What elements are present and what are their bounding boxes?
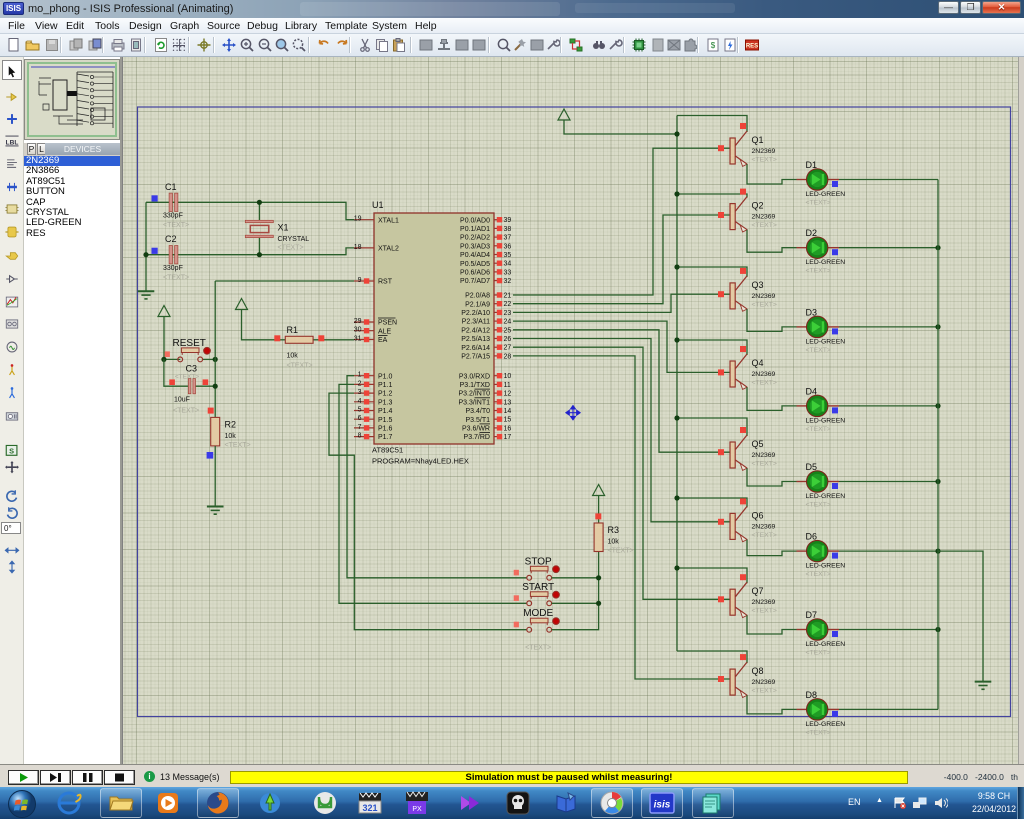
svg-text:LBL: LBL bbox=[6, 139, 19, 146]
wire power arrow to RESET row bbox=[163, 319, 165, 359]
svg-text:P2.3/A11: P2.3/A11 bbox=[462, 319, 490, 326]
svg-text:MODE: MODE bbox=[523, 608, 553, 619]
svg-text:2N2369: 2N2369 bbox=[752, 371, 776, 378]
origin marker bbox=[566, 406, 580, 420]
pin 8 P1.7 bbox=[354, 436, 374, 438]
pin 2 P1.1 bbox=[354, 383, 374, 385]
pin 9 RST bbox=[354, 280, 374, 282]
svg-text:<TEXT>: <TEXT> bbox=[806, 502, 831, 509]
wire C1-C2 left vertical + ground stem bbox=[145, 202, 147, 291]
svg-text:18: 18 bbox=[354, 244, 362, 251]
svg-text:P0.1/AD1: P0.1/AD1 bbox=[460, 226, 490, 233]
pin 39 P0.0/AD0 bbox=[494, 219, 502, 221]
pin 19 XTAL1 bbox=[354, 219, 374, 221]
svg-text:P0.2/AD2: P0.2/AD2 bbox=[460, 235, 490, 242]
svg-text:<TEXT>: <TEXT> bbox=[173, 408, 199, 415]
power terminal VCC (reset) bbox=[158, 306, 170, 317]
pin 21 P2.0/A8 bbox=[494, 294, 502, 296]
svg-text:LED-GREEN: LED-GREEN bbox=[806, 191, 846, 198]
svg-text:P3.5/T1: P3.5/T1 bbox=[465, 417, 490, 424]
wire P2.5 to Q6 base bbox=[513, 339, 730, 522]
svg-text:R2: R2 bbox=[225, 419, 237, 429]
node junction rail/D3 bbox=[935, 324, 940, 329]
svg-text:P0.3/AD3: P0.3/AD3 bbox=[460, 243, 490, 250]
ground (oscillator) bbox=[138, 290, 155, 292]
svg-text:Q4: Q4 bbox=[752, 358, 764, 368]
svg-text:C1: C1 bbox=[165, 182, 177, 192]
svg-text:U1: U1 bbox=[372, 200, 384, 210]
svg-text:P3.7/RD: P3.7/RD bbox=[464, 434, 490, 441]
svg-text:LED-GREEN: LED-GREEN bbox=[806, 721, 846, 728]
pin 22 P2.1/A9 bbox=[494, 303, 502, 305]
wire collector branch Q3 bbox=[677, 267, 747, 277]
svg-text:LED-GREEN: LED-GREEN bbox=[806, 417, 846, 424]
pin 11 P3.1/TXD bbox=[494, 383, 502, 385]
pin 32 P0.7/AD7 bbox=[494, 280, 502, 282]
svg-text:14: 14 bbox=[504, 408, 512, 415]
svg-text:Q8: Q8 bbox=[752, 666, 764, 676]
svg-text:<TEXT>: <TEXT> bbox=[752, 380, 777, 387]
svg-text:<TEXT>: <TEXT> bbox=[278, 245, 304, 252]
svg-text:P3.1/TXD: P3.1/TXD bbox=[460, 382, 490, 389]
svg-text:10: 10 bbox=[504, 373, 512, 380]
wire crystal top lead bbox=[258, 202, 260, 220]
svg-text:21: 21 bbox=[504, 293, 512, 300]
svg-text:P3.3/INT1: P3.3/INT1 bbox=[458, 399, 490, 406]
node junction rail/VCC bbox=[674, 131, 679, 136]
pin 10 P3.0/RXD bbox=[494, 375, 502, 377]
push button START bbox=[514, 595, 519, 601]
transistor Q5 2N2369 bbox=[718, 427, 777, 470]
pin 23 P2.2/A10 bbox=[494, 311, 502, 313]
wire P2.3 to Q4 base bbox=[513, 321, 730, 372]
wire C1 row to XTAL1 pin 19 bbox=[146, 202, 354, 219]
wire power arrow to R3 bbox=[598, 498, 600, 523]
pin 25 P2.4/A12 bbox=[494, 329, 502, 331]
wire P2.4 to Q5 base bbox=[513, 330, 730, 452]
node junction rail/D2 bbox=[935, 245, 940, 250]
wire collector branch Q1 bbox=[677, 116, 747, 133]
svg-text:<TEXT>: <TEXT> bbox=[752, 532, 777, 539]
svg-text:32: 32 bbox=[504, 278, 512, 285]
svg-text:1: 1 bbox=[358, 372, 362, 379]
power terminal VCC (rail) bbox=[558, 109, 570, 120]
svg-text:15: 15 bbox=[504, 417, 512, 424]
svg-text:P2.0/A8: P2.0/A8 bbox=[465, 293, 490, 300]
svg-text:P3.6/WR: P3.6/WR bbox=[462, 426, 490, 433]
svg-text:X1: X1 bbox=[278, 223, 289, 233]
node junction rail/Q3 bbox=[674, 264, 679, 269]
svg-text:P0.4/AD4: P0.4/AD4 bbox=[460, 252, 490, 259]
wire C3 right leg bbox=[196, 385, 216, 387]
svg-text:36: 36 bbox=[504, 243, 512, 250]
transistor Q6 2N2369 bbox=[718, 498, 777, 541]
transistor Q4 2N2369 bbox=[718, 346, 777, 389]
svg-text:17: 17 bbox=[504, 434, 512, 441]
node junction C3/RST bbox=[213, 384, 218, 389]
LED D5 LED-GREEN bbox=[797, 462, 846, 509]
pin 4 P1.3 bbox=[354, 401, 374, 403]
collector rail vertical bbox=[676, 116, 678, 652]
svg-text:P0.0/AD0: P0.0/AD0 bbox=[460, 217, 490, 224]
node junction rail/Q5 bbox=[674, 415, 679, 420]
svg-text:P3.2/INT0: P3.2/INT0 bbox=[458, 391, 490, 398]
svg-text:P1.6: P1.6 bbox=[378, 426, 393, 433]
svg-text:10k: 10k bbox=[225, 433, 237, 440]
svg-text:D2: D2 bbox=[806, 228, 818, 238]
svg-text:9: 9 bbox=[358, 277, 362, 284]
svg-text:<TEXT>: <TEXT> bbox=[752, 157, 777, 164]
svg-text:<TEXT>: <TEXT> bbox=[806, 650, 831, 657]
svg-text:<TEXT>: <TEXT> bbox=[806, 200, 831, 207]
LED D4 LED-GREEN bbox=[797, 386, 846, 433]
wire collector branch Q2 bbox=[677, 194, 747, 198]
power terminal VCC (EA) bbox=[236, 299, 248, 310]
wire D8 to cathode rail bbox=[839, 708, 938, 710]
wire Q8 emitter to D8 bbox=[747, 695, 797, 714]
node junction START/R3 bbox=[596, 601, 601, 606]
wire START row right bbox=[552, 602, 599, 604]
svg-text:LED-GREEN: LED-GREEN bbox=[806, 563, 846, 570]
svg-text:2N2369: 2N2369 bbox=[752, 599, 776, 606]
svg-text:LED-GREEN: LED-GREEN bbox=[806, 493, 846, 500]
svg-text:<TEXT>: <TEXT> bbox=[752, 461, 777, 468]
node junction reset-left bbox=[161, 357, 166, 362]
wire RESET row left bbox=[164, 358, 180, 360]
wire R1 to EA pin 31 bbox=[313, 339, 354, 341]
svg-text:P1.4: P1.4 bbox=[378, 408, 393, 415]
svg-text:23: 23 bbox=[504, 310, 512, 317]
svg-text:25: 25 bbox=[504, 327, 512, 334]
svg-text:R3: R3 bbox=[608, 525, 620, 535]
svg-text:P2.4/A12: P2.4/A12 bbox=[461, 327, 490, 334]
svg-text:2N2369: 2N2369 bbox=[752, 679, 776, 686]
svg-text:XTAL2: XTAL2 bbox=[378, 246, 399, 253]
node junction STOP/R3 bbox=[596, 575, 601, 580]
wire D7 to cathode rail bbox=[839, 629, 938, 631]
svg-text:<TEXT>: <TEXT> bbox=[806, 571, 831, 578]
svg-text:330pF: 330pF bbox=[163, 265, 183, 272]
svg-text:EA: EA bbox=[378, 337, 388, 344]
pin 15 P3.5/T1 bbox=[494, 418, 502, 420]
svg-text:<TEXT>: <TEXT> bbox=[806, 347, 831, 354]
svg-text:<TEXT>: <TEXT> bbox=[225, 442, 251, 449]
LED D3 LED-GREEN bbox=[797, 307, 846, 354]
svg-text:<TEXT>: <TEXT> bbox=[752, 688, 777, 695]
pin 1 P1.0 bbox=[354, 375, 374, 377]
svg-text:12: 12 bbox=[504, 391, 512, 398]
svg-text:2N2369: 2N2369 bbox=[752, 148, 776, 155]
svg-text:P0.6/AD6: P0.6/AD6 bbox=[460, 270, 490, 277]
wire P2.6 to Q7 base bbox=[513, 347, 730, 599]
svg-text:P2.2/A10: P2.2/A10 bbox=[461, 310, 490, 317]
wire P2.7 to Q8 base bbox=[513, 356, 730, 679]
ground (R2) bbox=[207, 506, 224, 508]
svg-text:D8: D8 bbox=[806, 690, 818, 700]
power terminal VCC (R3) bbox=[593, 485, 605, 496]
svg-text:<TEXT>: <TEXT> bbox=[752, 301, 777, 308]
wire power arrow to R1 bbox=[242, 312, 286, 340]
node junction C2/X1 bbox=[257, 252, 262, 257]
pin 12 P3.2/INT0 bbox=[494, 392, 502, 394]
wire P2.2 to Q3 base bbox=[513, 294, 730, 312]
wire Q1 emitter to D1 bbox=[747, 164, 797, 184]
LED D2 LED-GREEN bbox=[797, 228, 846, 275]
node junction reset-right bbox=[213, 357, 218, 362]
svg-text:START: START bbox=[522, 582, 554, 593]
svg-text:Q6: Q6 bbox=[752, 510, 764, 520]
pin 13 P3.3/INT1 bbox=[494, 401, 502, 403]
svg-text:Q2: Q2 bbox=[752, 201, 764, 211]
wire Q3 emitter to D3 bbox=[747, 309, 797, 331]
svg-text:PSEN: PSEN bbox=[378, 320, 397, 327]
wire D1 to cathode rail bbox=[839, 179, 938, 181]
svg-text:22: 22 bbox=[504, 301, 512, 308]
svg-text:D6: D6 bbox=[806, 532, 818, 542]
capacitor C1 330pF bbox=[169, 193, 172, 211]
svg-text:<TEXT>: <TEXT> bbox=[806, 426, 831, 433]
svg-text:LED-GREEN: LED-GREEN bbox=[806, 259, 846, 266]
svg-text:2: 2 bbox=[358, 380, 362, 387]
wire P2.0 to Q1 base bbox=[513, 148, 730, 295]
svg-text:D5: D5 bbox=[806, 462, 818, 472]
svg-text:$: $ bbox=[711, 41, 716, 50]
svg-text:P1.5: P1.5 bbox=[378, 417, 393, 424]
pin 5 P1.4 bbox=[354, 410, 374, 412]
svg-text:28: 28 bbox=[504, 353, 512, 360]
transistor Q7 2N2369 bbox=[718, 574, 777, 617]
svg-text:27: 27 bbox=[504, 345, 512, 352]
transistor Q1 2N2369 bbox=[718, 123, 777, 166]
svg-text:P0.7/AD7: P0.7/AD7 bbox=[460, 278, 490, 285]
svg-text:RES: RES bbox=[746, 44, 758, 50]
svg-text:RST: RST bbox=[378, 279, 393, 286]
pin 36 P0.3/AD3 bbox=[494, 245, 502, 247]
svg-text:31: 31 bbox=[354, 336, 362, 343]
wire D6 to cathode rail bbox=[839, 550, 938, 552]
svg-text:2N2369: 2N2369 bbox=[752, 452, 776, 459]
push button RESET bbox=[165, 351, 170, 357]
node junction rail/D4 bbox=[935, 403, 940, 408]
wire D4 to cathode rail bbox=[839, 405, 938, 407]
svg-text:P2.7/A15: P2.7/A15 bbox=[461, 354, 490, 361]
wire C2 row to XTAL2 pin 18 bbox=[146, 248, 354, 255]
svg-text:11: 11 bbox=[504, 382, 511, 389]
svg-text:6: 6 bbox=[358, 415, 362, 422]
pin 35 P0.4/AD4 bbox=[494, 254, 502, 256]
svg-text:P2.1/A9: P2.1/A9 bbox=[465, 301, 490, 308]
pin 33 P0.6/AD6 bbox=[494, 271, 502, 273]
svg-text:8: 8 bbox=[358, 433, 362, 440]
svg-text:S: S bbox=[9, 447, 14, 456]
pin 38 P0.1/AD1 bbox=[494, 227, 502, 229]
transistor Q8 2N2369 bbox=[718, 654, 777, 697]
svg-text:24: 24 bbox=[504, 319, 512, 326]
svg-text:4: 4 bbox=[358, 398, 362, 405]
svg-text:C2: C2 bbox=[165, 234, 177, 244]
svg-text:P2.5/A13: P2.5/A13 bbox=[461, 336, 490, 343]
pin 27 P2.6/A14 bbox=[494, 346, 502, 348]
push button MODE bbox=[514, 622, 519, 628]
pin 6 P1.5 bbox=[354, 418, 374, 420]
wire Q6 emitter to D6 bbox=[747, 540, 797, 556]
svg-text:38: 38 bbox=[504, 226, 512, 233]
wire collector branch Q7 bbox=[677, 568, 747, 583]
pin 14 P3.4/T0 bbox=[494, 410, 502, 412]
svg-text:<TEXT>: <TEXT> bbox=[806, 268, 831, 275]
node junction rail/Q2 bbox=[674, 191, 679, 196]
node junction rail/D6 bbox=[935, 549, 940, 554]
pin 28 P2.7/A15 bbox=[494, 355, 502, 357]
LED D6 LED-GREEN bbox=[797, 532, 846, 579]
wire D5 to cathode rail bbox=[839, 481, 938, 483]
svg-text:26: 26 bbox=[504, 336, 512, 343]
svg-text:P3.4/T0: P3.4/T0 bbox=[465, 408, 490, 415]
wire VCC to collector rail bbox=[564, 123, 677, 135]
svg-text:D4: D4 bbox=[806, 386, 818, 396]
wire P2.1 to Q2 base bbox=[513, 215, 730, 304]
svg-text:10k: 10k bbox=[608, 539, 620, 546]
cathode rail vertical bbox=[937, 180, 939, 710]
node junction rail/D5 bbox=[935, 479, 940, 484]
svg-text:33: 33 bbox=[504, 269, 512, 276]
resistor R1 10k bbox=[285, 336, 313, 343]
pin 7 P1.6 bbox=[354, 427, 374, 429]
svg-text:39: 39 bbox=[504, 217, 512, 224]
resistor R3 10k bbox=[594, 523, 603, 552]
wire collector branch Q4 bbox=[677, 340, 747, 355]
svg-text:PROGRAM=Nhay4LED.HEX: PROGRAM=Nhay4LED.HEX bbox=[372, 457, 469, 466]
LED D1 LED-GREEN bbox=[797, 160, 846, 207]
svg-text:Q5: Q5 bbox=[752, 439, 764, 449]
wire RESET row right to RST net bbox=[203, 358, 216, 360]
svg-text:P1.2: P1.2 bbox=[378, 391, 393, 398]
LED D7 LED-GREEN bbox=[797, 610, 846, 657]
pin 37 P0.2/AD2 bbox=[494, 236, 502, 238]
svg-text:<TEXT>: <TEXT> bbox=[287, 363, 313, 370]
svg-text:CRYSTAL: CRYSTAL bbox=[278, 236, 310, 243]
svg-text:STOP: STOP bbox=[525, 556, 552, 567]
wire Q5 emitter to D5 bbox=[747, 468, 797, 486]
wire P1.1 to START row bbox=[339, 384, 527, 603]
svg-text:2N2369: 2N2369 bbox=[752, 293, 776, 300]
svg-text:LED-GREEN: LED-GREEN bbox=[806, 641, 846, 648]
wire R2 to ground bbox=[214, 446, 216, 507]
wire Q2 emitter to D2 bbox=[747, 230, 797, 252]
pin 17 P3.7/RD bbox=[494, 436, 502, 438]
svg-text:29: 29 bbox=[354, 318, 362, 325]
resistor R2 10k bbox=[211, 417, 220, 446]
node junction rail/Q4 bbox=[674, 337, 679, 342]
svg-text:P1.7: P1.7 bbox=[378, 434, 393, 441]
node junction rail/Q6 bbox=[674, 495, 679, 500]
svg-text:34: 34 bbox=[504, 261, 512, 268]
svg-text:P1.3: P1.3 bbox=[378, 399, 393, 406]
pin 29 PSEN bbox=[354, 321, 374, 323]
svg-text:19: 19 bbox=[354, 216, 362, 223]
svg-text:13: 13 bbox=[504, 399, 512, 406]
pin 26 P2.5/A13 bbox=[494, 338, 502, 340]
wire MODE row right bbox=[552, 552, 599, 630]
wire Q7 emitter to D7 bbox=[747, 615, 797, 634]
svg-text:XTAL1: XTAL1 bbox=[378, 217, 399, 224]
capacitor C2 330pF bbox=[169, 246, 172, 264]
pin 31 EA bbox=[354, 339, 374, 341]
pin 18 XTAL2 bbox=[354, 247, 374, 249]
svg-text:P0.5/AD5: P0.5/AD5 bbox=[460, 261, 490, 268]
svg-text:<TEXT>: <TEXT> bbox=[752, 222, 777, 229]
svg-text:2N2369: 2N2369 bbox=[752, 523, 776, 530]
wire D2 to cathode rail bbox=[839, 247, 938, 249]
svg-text:P2.6/A14: P2.6/A14 bbox=[461, 345, 490, 352]
svg-text:2N2369: 2N2369 bbox=[752, 214, 776, 221]
svg-text:P1.1: P1.1 bbox=[378, 382, 393, 389]
sheet border frame bbox=[138, 107, 1011, 717]
ground (rail) bbox=[975, 681, 992, 683]
wire rail to ground branch bbox=[938, 551, 983, 682]
wire crystal bottom lead bbox=[258, 238, 260, 255]
wire RST vertical net bbox=[214, 281, 216, 417]
svg-text:35: 35 bbox=[504, 252, 512, 259]
transistor Q3 2N2369 bbox=[718, 268, 777, 311]
svg-text:AT89C51: AT89C51 bbox=[372, 446, 403, 455]
svg-text:37: 37 bbox=[504, 235, 512, 242]
wire RST pin 9 horizontal bbox=[215, 280, 354, 282]
svg-text:10uF: 10uF bbox=[174, 397, 190, 404]
svg-text:<TEXT>: <TEXT> bbox=[752, 608, 777, 615]
svg-text:Q3: Q3 bbox=[752, 280, 764, 290]
svg-text:P3.0/RXD: P3.0/RXD bbox=[459, 373, 490, 380]
svg-text:10k: 10k bbox=[287, 353, 299, 360]
microcontroller U1 AT89C51 bbox=[374, 213, 494, 444]
wire P1.0 to STOP row bbox=[347, 376, 527, 578]
node junction C1/X1 bbox=[257, 200, 262, 205]
svg-text:ALE: ALE bbox=[378, 328, 392, 335]
svg-text:<TEXT>: <TEXT> bbox=[608, 548, 634, 555]
svg-text:<TEXT>: <TEXT> bbox=[806, 729, 831, 736]
svg-text:D7: D7 bbox=[806, 610, 818, 620]
svg-text:<TEXT>: <TEXT> bbox=[525, 645, 551, 652]
node junction rail/Q7 bbox=[674, 565, 679, 570]
svg-text:Q7: Q7 bbox=[752, 586, 764, 596]
pin 34 P0.5/AD5 bbox=[494, 262, 502, 264]
pin 16 P3.6/WR bbox=[494, 427, 502, 429]
wire collector branch Q5 bbox=[677, 418, 747, 436]
svg-text:330pF: 330pF bbox=[163, 213, 183, 220]
svg-text:Q1: Q1 bbox=[752, 135, 764, 145]
LED D8 LED-GREEN bbox=[797, 690, 846, 737]
wire collector branch Q6 bbox=[677, 498, 747, 507]
svg-text:LED-GREEN: LED-GREEN bbox=[806, 338, 846, 345]
svg-text:16: 16 bbox=[504, 425, 512, 432]
svg-text:RESET: RESET bbox=[173, 338, 206, 349]
wire D3 to cathode rail bbox=[839, 326, 938, 328]
wire collector branch Q8 bbox=[677, 651, 747, 663]
svg-text:<TEXT>: <TEXT> bbox=[163, 274, 189, 281]
push button STOP bbox=[514, 570, 519, 576]
svg-text:<TEXT>: <TEXT> bbox=[163, 222, 189, 229]
pin 30 ALE bbox=[354, 330, 374, 332]
node junction C2/ground bbox=[143, 252, 148, 257]
wire Q4 emitter to D4 bbox=[747, 387, 797, 410]
wire C3 left leg bbox=[164, 359, 188, 386]
svg-text:3: 3 bbox=[358, 389, 362, 396]
svg-text:5: 5 bbox=[358, 407, 362, 414]
wire P1.2 to MODE row bbox=[329, 393, 527, 630]
svg-text:C3: C3 bbox=[186, 364, 198, 374]
transistor Q2 2N2369 bbox=[718, 189, 777, 232]
pin 24 P2.3/A11 bbox=[494, 320, 502, 322]
